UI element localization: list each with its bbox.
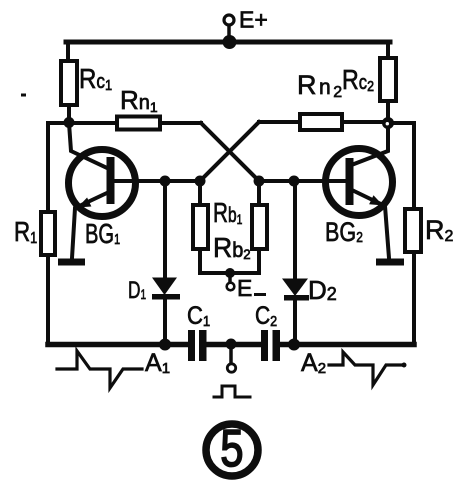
svg-text:C2: C2 <box>255 301 277 329</box>
wire Rn2 to crossover <box>259 120 300 124</box>
label C2 <box>255 301 277 329</box>
label Rb2 <box>213 231 251 263</box>
label A1 <box>145 349 170 377</box>
diode D2 <box>282 279 309 301</box>
wire base node to Rb2 <box>257 181 261 205</box>
wire rail to Rc1 <box>66 42 70 61</box>
svg-text:Rb1: Rb1 <box>213 198 243 229</box>
wire rail to Rc2 <box>386 42 390 58</box>
svg-text:C1: C1 <box>187 302 210 330</box>
capacitor C2 <box>261 330 280 361</box>
transistor BG1 <box>69 123 136 258</box>
label R1 <box>14 217 37 248</box>
wire R2 to bottom right corner <box>412 252 416 344</box>
transistor BG2 <box>326 129 393 258</box>
resistor R2 <box>405 209 421 252</box>
wire base node to D1 <box>163 181 167 278</box>
wire Rc1 to collector node <box>67 105 71 123</box>
svg-text:5: 5 <box>220 419 243 478</box>
svg-text:Rc2: Rc2 <box>342 65 374 95</box>
node A2 <box>288 339 300 351</box>
resistor Rn2 <box>300 114 342 130</box>
node junction E+ on rail <box>223 35 237 49</box>
node base BG1 at D1 <box>160 176 171 187</box>
svg-text:A1: A1 <box>145 349 170 377</box>
wire Rc2 to collector node <box>386 101 390 118</box>
wire D2 to node A2 <box>293 300 297 344</box>
wire crossover diagonal Rn2 to base BG1 <box>200 122 259 181</box>
label Rn2 <box>297 70 345 101</box>
terminal E+ <box>224 15 234 42</box>
svg-text:R2: R2 <box>425 215 454 245</box>
waveform at A1 <box>57 351 142 388</box>
terminal E- <box>227 273 235 290</box>
node trigger input <box>226 339 237 350</box>
label D1 <box>128 277 146 303</box>
label Rc2 <box>342 65 374 95</box>
terminal trigger input <box>227 344 235 372</box>
node E- junction <box>225 268 235 278</box>
resistor R1 <box>41 212 55 255</box>
svg-text:E+: E+ <box>239 7 268 33</box>
wire base node to Rb1 <box>198 181 202 205</box>
node base BG2 at D2 <box>289 176 300 187</box>
resistor Rb2 <box>252 205 267 249</box>
capacitor C1 <box>188 330 207 361</box>
wire collector node to R1 <box>48 123 69 212</box>
svg-text:Rb2: Rb2 <box>213 231 251 263</box>
svg-text:R1: R1 <box>14 217 37 248</box>
wire R1 to bottom left corner <box>46 255 50 344</box>
node base BG2 at Rb2 <box>254 176 265 187</box>
label C1 <box>187 302 210 330</box>
trigger pulse symbol <box>214 386 250 397</box>
svg-text:BG1: BG1 <box>85 219 120 250</box>
wire base BG2 <box>259 179 346 183</box>
wire collector node to R2 <box>392 123 414 209</box>
svg-text:D2: D2 <box>308 275 337 305</box>
wire bottom rail C1 to trigger node <box>207 342 262 348</box>
wire crossover diagonal Rn1 to base BG2 <box>201 123 259 181</box>
wire Rb2 to E- node <box>230 249 259 273</box>
wire collector node to Rn1 <box>69 121 117 125</box>
wire bottom rail left segment <box>48 342 188 348</box>
wire D1 to node A1 <box>163 299 167 344</box>
svg-text:Rn2: Rn2 <box>297 70 345 101</box>
waveform at A2 <box>329 352 407 385</box>
figure number 5 circle <box>206 424 258 476</box>
svg-text:A2: A2 <box>301 349 326 377</box>
label Rc1 <box>79 62 112 94</box>
label figure number 5 <box>220 419 243 478</box>
svg-text:Rc1: Rc1 <box>79 62 112 94</box>
label Rn1 <box>120 85 158 115</box>
node collector BG1 junction <box>64 117 75 128</box>
label D2 <box>308 275 337 305</box>
resistor Rc1 <box>61 61 77 105</box>
label BG1 <box>85 219 120 250</box>
label E- <box>237 275 266 301</box>
wire base node to D2 <box>293 181 297 279</box>
label A2 <box>301 349 326 377</box>
node collector BG2 junction <box>382 117 394 129</box>
svg-text:E: E <box>237 275 252 301</box>
ground BG1 emitter <box>58 259 85 266</box>
wire top supply rail <box>66 40 390 45</box>
wire bottom rail C2 to right corner <box>280 342 414 348</box>
wire Rn2 to collector node BG2 <box>342 120 388 124</box>
resistor Rc2 <box>380 58 396 101</box>
label R2 <box>425 215 454 245</box>
svg-text:BG2: BG2 <box>325 218 363 248</box>
node base BG1 at Rb1 <box>195 176 206 187</box>
wire Rb1 to E- node <box>200 249 230 273</box>
wire base BG1 <box>114 179 200 183</box>
svg-text:Rn1: Rn1 <box>120 85 158 115</box>
ground BG2 emitter <box>376 259 404 266</box>
label Rb1 <box>213 198 243 229</box>
svg-text:D1: D1 <box>128 277 146 303</box>
stray mark <box>21 94 26 97</box>
resistor Rn1 <box>117 117 160 130</box>
label BG2 <box>325 218 363 248</box>
diode D1 <box>152 278 180 300</box>
node A1 <box>159 339 171 351</box>
resistor Rb1 <box>193 205 208 249</box>
wire Rn1 to crossover <box>160 121 201 125</box>
